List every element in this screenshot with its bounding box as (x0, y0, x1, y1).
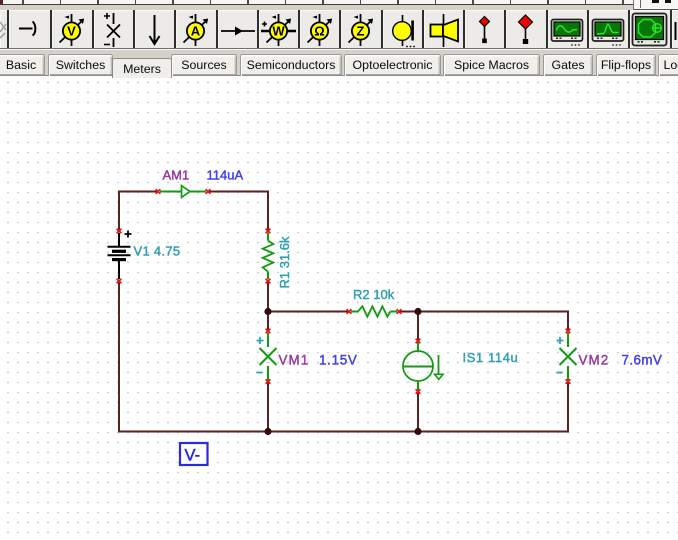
svg-text:7.6mV: 7.6mV (622, 353, 663, 368)
svg-text:V: V (67, 23, 76, 38)
svg-text:W: W (272, 23, 285, 38)
svg-text:V1 4.75: V1 4.75 (134, 244, 181, 259)
svg-text:VM2: VM2 (579, 353, 610, 368)
svg-text:R2 10k: R2 10k (353, 287, 395, 302)
svg-text:IS1 114u: IS1 114u (463, 350, 519, 365)
svg-text:AM1: AM1 (163, 168, 190, 183)
svg-text:A: A (191, 23, 201, 38)
svg-text:Z: Z (357, 23, 365, 38)
svg-text:V-: V- (185, 447, 201, 465)
svg-text:R1 31.6k: R1 31.6k (277, 236, 292, 289)
svg-text:VM1: VM1 (279, 353, 310, 368)
svg-text:114uA: 114uA (207, 168, 244, 183)
svg-text:1.15V: 1.15V (319, 353, 358, 368)
svg-text:Ω: Ω (314, 23, 324, 38)
